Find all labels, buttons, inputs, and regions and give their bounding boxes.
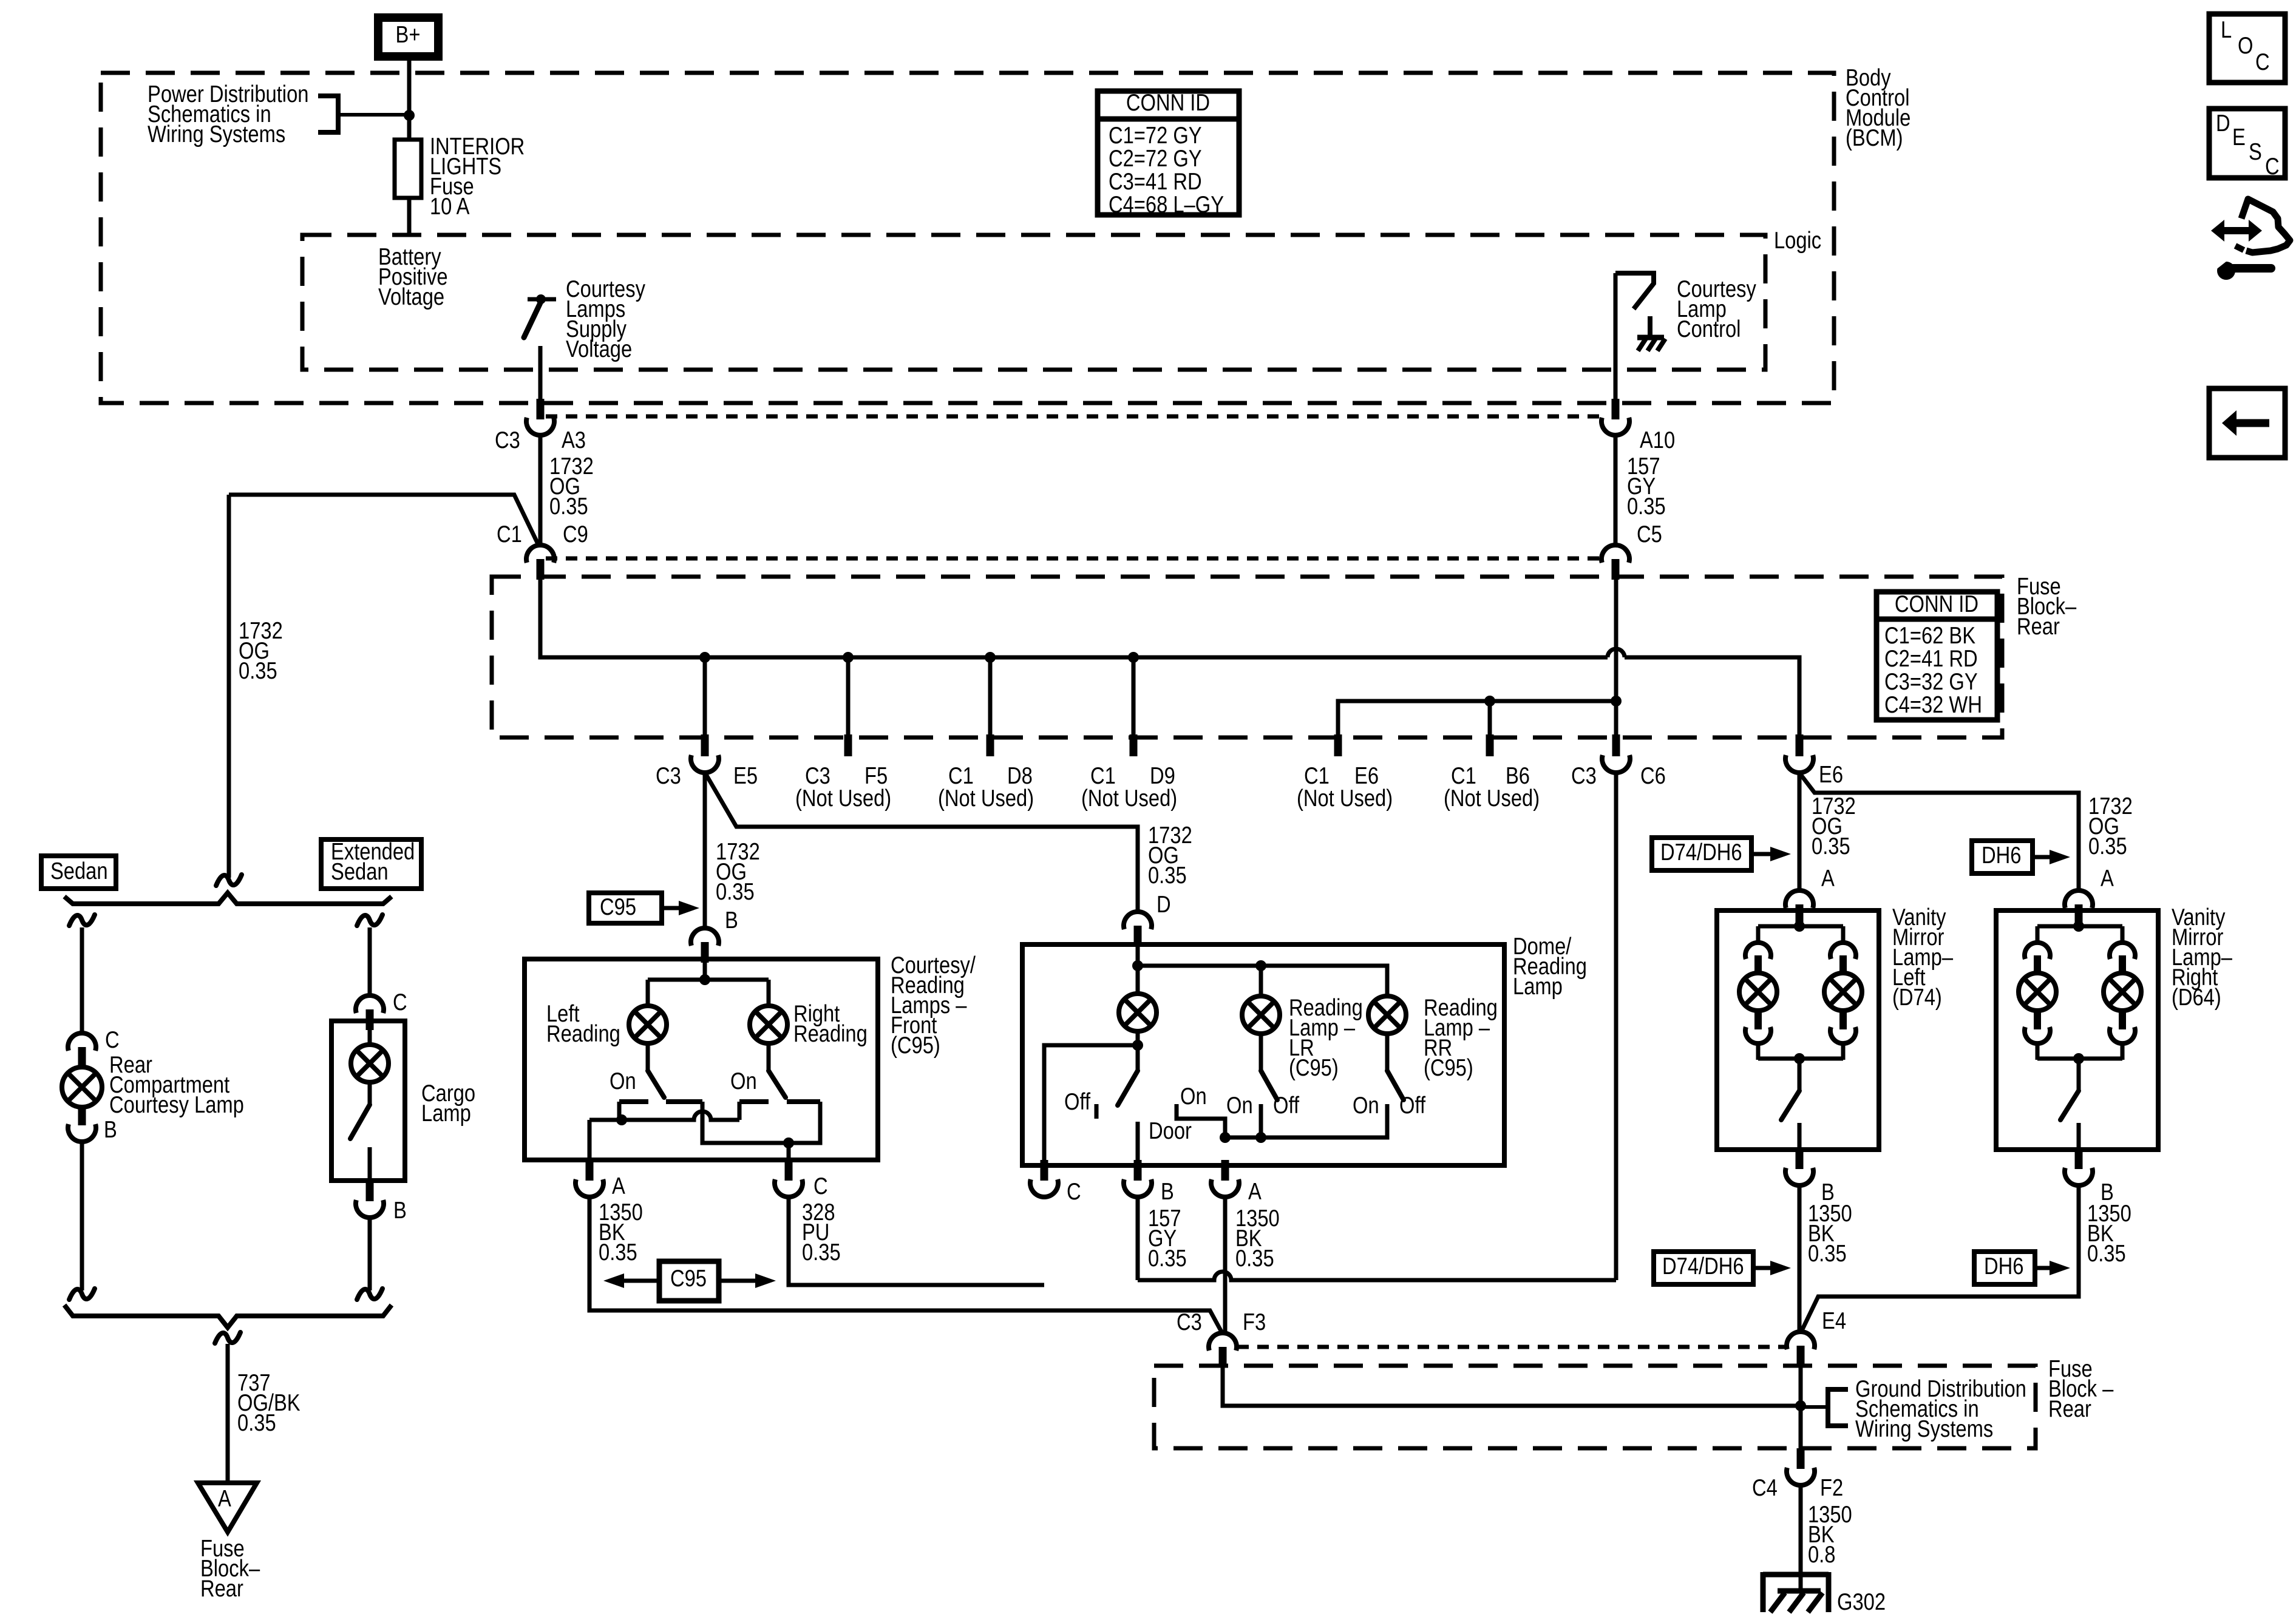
wire E5 tap to Dome lamp D [706, 775, 1138, 913]
svg-text:0.35: 0.35 [1148, 1246, 1187, 1272]
wire break symbol (extended merge) [357, 1289, 382, 1300]
switch right reading (On) [769, 1071, 786, 1097]
svg-text:CONN ID: CONN ID [1895, 591, 1978, 617]
BCM outer box (dashed) [101, 73, 1834, 403]
junction dot (dome entry) [1132, 960, 1143, 971]
connector C1/D8 terminal [987, 734, 994, 756]
svg-text:Wiring Systems: Wiring Systems [1855, 1416, 1993, 1442]
junction dot (left vanity bottom) [1794, 1053, 1805, 1064]
connector B (right vanity) [2065, 1148, 2093, 1185]
label Left Reading [546, 1001, 620, 1047]
wire to Cargo Lamp [368, 927, 372, 995]
reference arrow D74/DH6 (bottom) [1654, 1252, 1791, 1284]
wire LR lamp branch [1259, 966, 1263, 997]
connector E6 (fuse block right) [1785, 734, 1813, 773]
wire drop to E6 (not used) [1334, 734, 1342, 756]
merge brace [64, 1305, 392, 1327]
pin label C (rear lamp) [105, 1027, 120, 1053]
wire A to F3 ground [589, 1197, 1221, 1332]
svg-text:On: On [610, 1068, 636, 1094]
reference arrow DH6 (bottom) [1974, 1252, 2070, 1284]
svg-text:C1=62 BK: C1=62 BK [1884, 623, 1975, 649]
wire dome B to C6 (door signal) [1138, 771, 1616, 1280]
wire label 1350 BK 0.35 (right vanity) [2087, 1201, 2131, 1267]
connector C3/E5 [691, 734, 719, 773]
wire drop to D8 (not used) [988, 657, 993, 736]
svg-text:C3: C3 [1571, 763, 1597, 789]
svg-text:C4=32 WH: C4=32 WH [1884, 692, 1982, 718]
wire drop to B6 (not used) [1488, 701, 1492, 756]
pin label D [1156, 892, 1171, 918]
reference bracket (power distribution) [318, 96, 408, 132]
junction dot (dome lamp out) [1132, 1040, 1143, 1051]
wire B+ to fuse [407, 61, 412, 140]
switch cargo lamp [350, 1082, 370, 1181]
pin label C5 [1637, 521, 1662, 547]
label Vanity Mirror Lamp- Right (D64) [2172, 904, 2232, 1011]
pin label B (right vanity) [2101, 1179, 2114, 1205]
icon adjust (double arrow, panel, wrench) [2211, 199, 2290, 280]
pin label C1 (D8) [948, 763, 974, 789]
label Off (RR) [1399, 1093, 1425, 1119]
connector E4 [1787, 1332, 1815, 1366]
label Right Reading [793, 1001, 868, 1047]
Logic box (dashed) [302, 235, 1765, 370]
wire label 737 OG/BK 0.35 [237, 1370, 301, 1436]
pin label C3 (C6) [1571, 763, 1597, 789]
label Dome/ Reading Lamp [1513, 934, 1587, 1000]
label Logic [1774, 228, 1821, 254]
junction dot D8 drop [985, 652, 996, 663]
harness dotted line (bottom) [546, 557, 1602, 561]
wire to right reading lamp [767, 980, 771, 1006]
wire label 1732 OG 0.35 (E5-B) [716, 839, 760, 905]
connector C3/F5 terminal [844, 734, 852, 756]
switch Courtesy Lamps Supply Voltage [524, 294, 556, 337]
pin label C (cargo) [393, 989, 407, 1015]
svg-text:S: S [2249, 139, 2262, 165]
dotted line (ground harness) [1237, 1345, 1785, 1349]
wire D into dome bus [1136, 946, 1140, 966]
wire label 1732 OG 0.35 (left) [239, 618, 283, 684]
svg-text:C: C [393, 989, 407, 1015]
svg-text:E6: E6 [1819, 762, 1843, 788]
label Power Distribution Schematics in Wiring Systems [148, 81, 308, 147]
svg-text:Voltage: Voltage [566, 336, 632, 362]
wire secondary feed (E6/B6 not used) [1338, 701, 1616, 736]
svg-text:10 A: 10 A [430, 194, 470, 220]
pin label C9 [563, 521, 588, 547]
label On (LR) [1226, 1093, 1253, 1119]
icon back arrow [2209, 388, 2285, 458]
label (Not Used) F5 [795, 785, 891, 812]
connector C3/F3 [1209, 1333, 1237, 1368]
svg-text:Sedan: Sedan [50, 858, 108, 884]
wire A10 to C5 [1614, 435, 1618, 545]
label Fuse Block - Rear (ground) [2048, 1356, 2113, 1422]
junction dot B6 drop [1484, 696, 1495, 707]
junction dot (LR A) [1255, 1132, 1266, 1143]
svg-text:CONN ID: CONN ID [1126, 90, 1210, 116]
wire tap to Sedan branch [229, 495, 538, 544]
wire break symbol (extended sedan branch) [357, 915, 382, 926]
svg-text:B: B [104, 1117, 117, 1143]
svg-text:C3=41 RD: C3=41 RD [1109, 169, 1202, 195]
svg-text:B+: B+ [396, 22, 421, 48]
label Ground Distribution Schematics in Wiring Systems [1855, 1376, 2026, 1442]
connector C5 [1601, 545, 1629, 580]
CONN ID table (BCM) [1098, 90, 1239, 218]
svg-text:C95: C95 [600, 894, 636, 920]
wire C to dome lamp C [789, 1197, 1044, 1285]
svg-text:L: L [2221, 17, 2232, 43]
wire A into right vanity [2077, 925, 2081, 926]
connector C (rear compartment lamp) [68, 1033, 96, 1068]
svg-text:E4: E4 [1822, 1308, 1846, 1334]
pin label C3 (E5) [656, 763, 681, 789]
pin label C1 (E6) [1304, 763, 1330, 789]
pin label A3 [562, 427, 586, 453]
pin label B (rear lamp) [104, 1117, 117, 1143]
svg-text:0.35: 0.35 [549, 493, 588, 520]
wire label 1732 OG 0.35 (A3-C9) [549, 453, 594, 520]
pin label C1 [497, 521, 522, 547]
connector A (left vanity) [1785, 890, 1813, 925]
svg-text:Wiring Systems: Wiring Systems [148, 121, 285, 147]
wire A3 to C1/C9 [538, 435, 543, 545]
wire A into left vanity [1798, 925, 1802, 926]
wire E6 tap to right vanity [1801, 775, 2079, 892]
pin label A (C95 front) [612, 1173, 625, 1199]
wire C drop (C95) [787, 1143, 791, 1161]
svg-text:Off: Off [1399, 1093, 1425, 1119]
reference bracket (ground distribution) [1799, 1389, 1848, 1426]
connector C1/C9 [526, 545, 554, 580]
pin label C3 (BCM) [495, 427, 520, 453]
wire door On contact [1177, 1104, 1225, 1137]
svg-text:0.35: 0.35 [716, 879, 755, 905]
label Reading Lamp - RR (C95) [1424, 995, 1498, 1081]
wire left vanity B to E4 [1798, 1185, 1802, 1333]
pin label C (dome) [1067, 1179, 1081, 1205]
wire rear lamp to merge [80, 1142, 84, 1290]
svg-text:Rear: Rear [2048, 1396, 2091, 1422]
pin label B (dome) [1161, 1179, 1174, 1205]
reference arrow C95 (to B) [589, 893, 699, 923]
wire cargo connector to lamp [368, 1030, 372, 1046]
svg-text:C: C [813, 1173, 828, 1199]
pin label C4 [1752, 1475, 1778, 1501]
connector C3/A3 [526, 399, 554, 435]
svg-text:On: On [730, 1068, 757, 1094]
label Courtesy/ Reading Lamps - Front (C95) [891, 952, 976, 1059]
svg-text:D: D [2216, 110, 2230, 137]
wire label 1350 BK 0.35 (dome A) [1235, 1205, 1280, 1272]
connector B (C95 front) [691, 928, 719, 963]
connector C (dome) [1030, 1160, 1058, 1197]
wire drop to E5 [703, 657, 707, 736]
Vanity Mirror Lamp Left box [1717, 910, 1879, 1150]
pin label E5 [733, 763, 758, 789]
connector C3/C6 [1602, 734, 1630, 773]
svg-text:C95: C95 [670, 1266, 707, 1292]
pin label C6 [1640, 763, 1666, 789]
wire label 1350 BK 0.8 [1808, 1502, 1852, 1568]
junction dot (door A) [1220, 1132, 1231, 1143]
pin label A (right vanity) [2101, 866, 2114, 892]
switch right vanity [2060, 1059, 2079, 1150]
svg-text:0.8: 0.8 [1808, 1542, 1835, 1568]
label (Not Used) B6 [1444, 785, 1540, 812]
wire to left reading lamp [646, 980, 650, 1006]
off-page connector triangle A [198, 1483, 257, 1532]
switch Courtesy Lamp Control [1615, 273, 1665, 351]
label On (RR) [1353, 1093, 1379, 1119]
pin label B6 [1506, 763, 1530, 789]
junction dot (ground tie) [1795, 1400, 1806, 1411]
junction dot (left vanity top) [1794, 921, 1805, 932]
svg-text:D74/DH6: D74/DH6 [1662, 1253, 1744, 1280]
wire E4 to C4 [1799, 1366, 1803, 1449]
pin label F5 [864, 763, 888, 789]
label Vanity Mirror Lamp- Left (D74) [1892, 904, 1953, 1011]
wire left On contact to A net [617, 1102, 622, 1120]
label Battery Positive Voltage [378, 244, 448, 310]
svg-text:A3: A3 [562, 427, 586, 453]
pin label C (C95 front) [813, 1173, 828, 1199]
svg-text:(BCM): (BCM) [1846, 125, 1903, 151]
pin label A (left vanity) [1821, 866, 1835, 892]
wire merge to fuse block [226, 1344, 230, 1483]
connector A (right vanity) [2065, 890, 2093, 925]
connector B (rear compartment lamp) [68, 1107, 96, 1142]
wire C5 to C6 [1614, 580, 1618, 736]
svg-text:C3: C3 [656, 763, 681, 789]
junction dot D9 drop [1128, 652, 1139, 663]
connector C1/D9 terminal [1130, 734, 1138, 756]
svg-text:A: A [2101, 866, 2114, 892]
junction dot (right vanity top) [2073, 921, 2084, 932]
wire break symbol (sedan branch) [69, 915, 95, 926]
wire break symbol (sedan merge) [69, 1289, 95, 1300]
label G302 [1837, 1589, 1886, 1615]
pin label F2 [1820, 1475, 1843, 1501]
junction dot E5 drop [699, 652, 710, 663]
svg-text:C1=72 GY: C1=72 GY [1109, 123, 1202, 149]
label Courtesy Lamps Supply Voltage [566, 276, 645, 362]
svg-text:0.35: 0.35 [1627, 493, 1666, 520]
svg-text:Logic: Logic [1774, 228, 1821, 254]
connector A10 [1601, 399, 1629, 435]
wire dome C branch [1044, 1045, 1138, 1161]
wire break symbol (split top) [216, 875, 242, 886]
connector A (dome) [1211, 1160, 1239, 1197]
svg-text:On: On [1180, 1083, 1207, 1110]
svg-text:(C95): (C95) [1424, 1055, 1473, 1081]
pin label A (dome) [1248, 1179, 1262, 1205]
reference arrow D74/DH6 (top) [1652, 838, 1791, 870]
svg-text:Rear: Rear [2017, 614, 2060, 640]
svg-text:C: C [2265, 154, 2280, 180]
svg-text:0.35: 0.35 [1235, 1246, 1274, 1272]
pin label C3 (F3) [1177, 1309, 1202, 1335]
svg-text:C4: C4 [1752, 1475, 1778, 1501]
svg-text:F2: F2 [1820, 1475, 1843, 1501]
svg-text:C2=41 RD: C2=41 RD [1884, 646, 1978, 672]
bus wire (dome A net) [1225, 1104, 1387, 1137]
svg-text:(D74): (D74) [1892, 985, 1942, 1011]
CONN ID table (fuse block) [1877, 591, 1997, 720]
junction dot C5 wire to secondary feed [1611, 696, 1622, 707]
svg-text:O: O [2238, 33, 2253, 59]
wire F3 to ground junction [1223, 1368, 1799, 1406]
wire label 157 GY 0.35 (A10-C5) [1627, 453, 1666, 520]
wire supply switch to C3/A3 [538, 346, 543, 401]
pin label C3 (F5) [805, 763, 830, 789]
lamp Cargo [351, 1045, 389, 1082]
label Courtesy Lamp Control [1677, 276, 1756, 342]
wire label 157 GY 0.35 (dome B) [1148, 1205, 1187, 1272]
wire A net (C95 interconnect) [589, 1102, 739, 1120]
junction dot (right vanity bottom) [2073, 1053, 2084, 1064]
ground G302 [1763, 1572, 1829, 1612]
label Off (LR) [1273, 1093, 1299, 1119]
wire drop to F5 (not used) [846, 657, 851, 736]
svg-text:0.35: 0.35 [599, 1239, 637, 1266]
svg-text:B: B [393, 1198, 407, 1224]
wire left lamp to switch [646, 1043, 650, 1070]
svg-text:A: A [1821, 866, 1835, 892]
connector A (C95 front) [576, 1160, 603, 1197]
junction dot (B+/power distribution) [404, 110, 415, 121]
svg-text:C1: C1 [497, 521, 522, 547]
svg-text:C3=32 GY: C3=32 GY [1884, 669, 1978, 695]
switch left reading (On) [648, 1071, 664, 1097]
svg-text:0.35: 0.35 [2088, 833, 2127, 859]
switch LR (On/Off) [1261, 1071, 1277, 1137]
power symbol B+ [378, 18, 438, 56]
label On (left reading) [610, 1068, 636, 1094]
wire to Rear Compartment Courtesy Lamp [80, 927, 84, 1033]
label On (door) [1180, 1083, 1207, 1110]
label INTERIOR LIGHTS Fuse 10 A [430, 134, 525, 220]
pin label B (left vanity) [1821, 1179, 1835, 1205]
fuse INTERIOR LIGHTS 10 A [395, 140, 421, 198]
svg-text:(Not Used): (Not Used) [1081, 785, 1177, 812]
lamp Left Reading [629, 1006, 667, 1043]
wire cargo to merge [368, 1218, 372, 1290]
svg-text:(Not Used): (Not Used) [1444, 785, 1540, 812]
svg-text:A: A [612, 1173, 625, 1199]
connector D (dome lamp) [1124, 912, 1152, 946]
wire label 328 PU 0.35 [802, 1199, 841, 1266]
pin label E6 (not used) [1354, 763, 1379, 789]
switch contact bars (C95 box) [619, 1099, 820, 1104]
lamp Dome (courtesy) [1119, 994, 1156, 1031]
svg-text:Off: Off [1064, 1089, 1090, 1115]
wire E6 to left vanity A [1798, 773, 1802, 892]
label Door [1149, 1118, 1192, 1144]
svg-text:Sedan: Sedan [331, 859, 389, 885]
inline connector C95 (double arrow) [603, 1261, 776, 1301]
junction dot (C net) [783, 1137, 794, 1148]
split brace (Sedan / Extended Sedan) [64, 893, 392, 904]
label box Sedan [41, 856, 116, 889]
Fuse Block-Rear ground box (dashed) [1154, 1366, 2036, 1448]
switch dome Off/Door [1096, 1045, 1138, 1161]
svg-text:0.35: 0.35 [1812, 833, 1850, 859]
svg-text:D74/DH6: D74/DH6 [1660, 839, 1742, 866]
label (Not Used) D9 [1081, 785, 1177, 812]
lamp Rear Compartment Courtesy Lamp [62, 1067, 102, 1107]
wire LR lamp to switch [1259, 1034, 1263, 1070]
svg-text:Off: Off [1273, 1093, 1299, 1119]
connector C (C95 front) [775, 1160, 803, 1197]
svg-text:DH6: DH6 [1984, 1253, 2023, 1280]
bus wire (fuse block internal feed) [540, 580, 1799, 734]
wire 1732 OG to Sedan split [227, 495, 231, 878]
pin label E6 [1819, 762, 1843, 788]
svg-text:F3: F3 [1243, 1309, 1266, 1335]
svg-text:B: B [1161, 1179, 1174, 1205]
svg-text:Door: Door [1149, 1118, 1192, 1144]
wire B into lamp bus [703, 963, 707, 980]
svg-text:C2=72 GY: C2=72 GY [1109, 146, 1202, 172]
svg-text:C6: C6 [1640, 763, 1666, 789]
icon DESC [2209, 109, 2285, 180]
svg-text:C5: C5 [1637, 521, 1662, 547]
lamp Right Reading [750, 1006, 787, 1043]
label Cargo Lamp [421, 1080, 475, 1127]
svg-text:Reading: Reading [793, 1021, 868, 1047]
label Body Control Module (BCM) [1846, 65, 1911, 151]
svg-text:0.35: 0.35 [1148, 863, 1187, 889]
svg-text:B: B [725, 907, 738, 934]
svg-text:(Not Used): (Not Used) [1297, 785, 1393, 812]
wire dome A to F3 [1223, 1197, 1228, 1334]
wire label 1732 OG 0.35 (right vanity) [2088, 793, 2133, 859]
pin label E4 [1822, 1308, 1846, 1334]
switch left vanity [1781, 1059, 1799, 1150]
icon LOC [2209, 14, 2285, 83]
wire A drop (C95) [588, 1120, 592, 1161]
junction dot (A net) [616, 1114, 627, 1125]
harness dotted line (top) [546, 415, 1602, 419]
svg-text:C9: C9 [563, 521, 588, 547]
svg-text:C4=68 L–GY: C4=68 L–GY [1109, 192, 1224, 218]
junction dot F5 drop [843, 652, 854, 663]
Fuse Block-Rear box (dashed) [492, 577, 2002, 737]
label Fuse Block-Rear (bottom left) [200, 1536, 260, 1602]
svg-text:(D64): (D64) [2172, 985, 2221, 1011]
wire label 1350 BK 0.35 (front A) [599, 1199, 643, 1266]
svg-text:Voltage: Voltage [378, 284, 444, 310]
switch RR (On/Off) [1387, 1071, 1404, 1100]
wire fuse to Logic box [407, 198, 412, 235]
svg-text:C3: C3 [1177, 1309, 1202, 1335]
pin label C1 (D9) [1090, 763, 1116, 789]
wire drop to D9 (not used) [1132, 657, 1136, 736]
Dome/Reading Lamp box [1022, 944, 1504, 1165]
reference arrow DH6 (top) [1972, 841, 2070, 873]
svg-text:Lamp: Lamp [1513, 974, 1563, 1000]
pin label B (C95 front) [725, 907, 738, 934]
wire label 1732 OG 0.35 (D) [1148, 822, 1192, 889]
connector C4/F2 [1787, 1448, 1815, 1485]
svg-text:On: On [1226, 1093, 1253, 1119]
wire C4 to G302 [1799, 1485, 1803, 1592]
svg-text:(Not Used): (Not Used) [795, 785, 891, 812]
